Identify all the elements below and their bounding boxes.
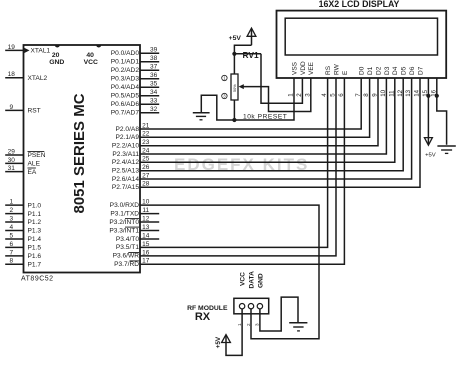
svg-text:7: 7 (355, 93, 362, 97)
svg-text:5: 5 (9, 232, 13, 239)
pin 30 ALE (5, 157, 40, 168)
pin 16 P3.6/WR (113, 249, 150, 259)
svg-text:D0: D0 (359, 66, 366, 75)
svg-text:19: 19 (8, 44, 16, 51)
svg-text:3: 3 (9, 215, 13, 222)
RV1 wiper arrow (239, 84, 244, 89)
pin 12 P3.2/INT0 (109, 215, 149, 225)
pin 20 GND top bump (55, 45, 60, 48)
svg-text:XTAL2: XTAL2 (28, 75, 48, 82)
wire P3.0/RXD to RF module DATA (140, 205, 319, 339)
wire P3.6/WR to LCD RW (140, 78, 336, 256)
svg-text:38: 38 (150, 55, 158, 62)
pin 1 P1.0 (5, 199, 41, 210)
pin 37 P0.2/AD2 (111, 64, 159, 74)
svg-text:+5V: +5V (215, 336, 222, 348)
pin 17 P3.7/RD (114, 258, 150, 268)
wire stub pin 13 (140, 230, 159, 232)
svg-text:30: 30 (8, 157, 16, 164)
pin 33 P0.6/AD6 (111, 98, 159, 108)
pin 11 P3.1/TXD (110, 207, 149, 217)
RV1 pin 1 circle (222, 75, 227, 80)
svg-text:P2.5/A13: P2.5/A13 (112, 168, 139, 175)
svg-text:VDD: VDD (300, 61, 307, 75)
pin 28 P2.7/A15 (112, 181, 150, 191)
pin 21 P2.0/A8 (116, 122, 150, 132)
pin 29 PSEN (5, 148, 45, 159)
wire LCD pin3 VEE to pot wiper (243, 78, 311, 112)
pin 32 P0.7/AD7 (111, 106, 159, 116)
svg-text:RW: RW (333, 63, 340, 75)
svg-text:11: 11 (388, 90, 395, 97)
RV1 pin 3 circle (222, 93, 227, 98)
wire P2.0/A8 to LCD D0 (140, 78, 361, 129)
svg-text:+5V: +5V (229, 35, 242, 42)
svg-text:P3.5/T1: P3.5/T1 (116, 244, 139, 251)
svg-text:P2.7/A15: P2.7/A15 (112, 184, 139, 191)
RF pin circle 1 (239, 304, 244, 309)
svg-text:P0.7/AD7: P0.7/AD7 (111, 110, 140, 117)
svg-text:31: 31 (8, 165, 16, 172)
svg-text:+5V: +5V (425, 152, 436, 158)
svg-text:RS: RS (325, 65, 332, 75)
wire P2.2/A10 to LCD D2 (140, 78, 378, 146)
pin 36 P0.3/AD3 (111, 72, 159, 82)
RF pin circle 2 (248, 304, 253, 309)
RF pin circle 3 (257, 304, 262, 309)
wire stub pin 11 (140, 213, 159, 215)
svg-text:13: 13 (405, 89, 412, 96)
pin 6 P1.5 (5, 241, 41, 252)
svg-text:P0.2/AD2: P0.2/AD2 (111, 67, 140, 74)
svg-text:VCC: VCC (240, 272, 247, 286)
svg-text:10: 10 (380, 89, 387, 96)
wire LCD pin16 backlight cathode to ground (437, 78, 447, 145)
svg-text:8: 8 (363, 93, 370, 97)
junction RV1 top node (232, 52, 236, 56)
svg-text:50%: 50% (233, 84, 237, 92)
pin 9 RST (5, 104, 40, 115)
wire stub pin 12 (140, 221, 159, 223)
pin 24 P2.3/A11 (112, 147, 149, 157)
potentiometer RV1 body (231, 74, 238, 100)
wire P3.7/RD to LCD E (140, 78, 344, 264)
svg-text:GND: GND (257, 273, 264, 288)
svg-text:P3.3/INT1: P3.3/INT1 (109, 227, 139, 234)
wire stub pin 14 (140, 238, 159, 240)
wire P3.5/T1 to LCD RS (140, 78, 328, 247)
svg-text:D6: D6 (409, 66, 416, 75)
svg-text:DATA: DATA (248, 271, 255, 289)
pin 13 P3.3/INT1 (109, 224, 149, 234)
svg-text:GND: GND (49, 59, 64, 66)
svg-text:9: 9 (372, 93, 379, 97)
svg-text:P0.5/AD5: P0.5/AD5 (111, 93, 140, 100)
wire LCD pin1 VSS stub down to ground rail (201, 78, 294, 120)
svg-text:XTAL1: XTAL1 (31, 48, 51, 55)
ground symbol near RF (289, 323, 307, 331)
svg-text:12: 12 (397, 89, 404, 96)
svg-text:P3.2/INT0: P3.2/INT0 (109, 219, 139, 226)
svg-text:9: 9 (9, 104, 13, 111)
svg-text:ALE: ALE (28, 161, 41, 168)
svg-text:VEE: VEE (308, 61, 315, 75)
svg-text:P1.5: P1.5 (28, 245, 42, 252)
svg-text:P2.1/A9: P2.1/A9 (116, 134, 140, 141)
wire RF GND to ground (260, 297, 298, 331)
pin 5 P1.4 (5, 232, 41, 243)
svg-text:P3.4/T0: P3.4/T0 (116, 236, 139, 243)
svg-text:4: 4 (9, 224, 13, 231)
svg-text:P2.4/A12: P2.4/A12 (112, 159, 139, 166)
svg-text:P2.6/A14: P2.6/A14 (112, 176, 139, 183)
pin 35 P0.4/AD4 (111, 81, 159, 91)
svg-text:AT89C52: AT89C52 (21, 275, 54, 282)
svg-text:D1: D1 (367, 66, 374, 75)
svg-text:D3: D3 (384, 66, 391, 75)
pin 15 P3.5/T1 (116, 241, 150, 251)
pin 18 XTAL2 (5, 71, 47, 82)
svg-text:8: 8 (9, 258, 13, 265)
svg-text:RX: RX (195, 311, 211, 323)
wire LCD pin2 VDD to +5V rail (261, 54, 302, 104)
svg-text:36: 36 (150, 72, 158, 79)
svg-text:P1.3: P1.3 (28, 228, 42, 235)
pin 14 P3.4/T0 (116, 232, 150, 242)
svg-text:35: 35 (150, 81, 158, 88)
wire +5V node to VDD drop (234, 53, 261, 55)
svg-text:P0.3/AD3: P0.3/AD3 (111, 76, 140, 83)
ground at LCD pin16 (437, 146, 455, 153)
svg-text:P1.1: P1.1 (28, 211, 42, 218)
svg-text:1: 1 (9, 199, 13, 206)
wire +5V to RV1 top (234, 45, 251, 74)
svg-text:P0.1/AD1: P0.1/AD1 (111, 59, 140, 66)
junction pin16 (435, 94, 439, 98)
svg-text:P2.2/A10: P2.2/A10 (112, 143, 139, 150)
ground symbol near RV1 (193, 113, 210, 120)
svg-text:D2: D2 (375, 66, 382, 75)
wire RF VCC to +5V (226, 309, 242, 356)
wire LCD pin15 backlight anode (427, 78, 429, 144)
svg-text:P1.4: P1.4 (28, 236, 42, 243)
svg-text:33: 33 (150, 98, 158, 105)
pin 23 P2.2/A10 (112, 139, 150, 149)
wire P2.6/A14 to LCD D6 (140, 78, 412, 179)
svg-text:8051 SERIES MC: 8051 SERIES MC (71, 93, 88, 213)
pin 26 P2.5/A13 (112, 164, 150, 174)
svg-text:P2.0/A8: P2.0/A8 (116, 126, 140, 133)
svg-text:P0.4/AD4: P0.4/AD4 (111, 84, 140, 91)
svg-text:1: 1 (237, 323, 242, 326)
power +5V arrow top (247, 28, 256, 45)
svg-text:P3.6/WR: P3.6/WR (113, 253, 140, 260)
svg-text:20: 20 (52, 52, 60, 59)
svg-text:P1.0: P1.0 (28, 202, 42, 209)
pin 34 P0.5/AD5 (111, 89, 159, 99)
pin 40 VCC top bump (96, 45, 101, 48)
wire RV1 bottom to ground rail (233, 100, 235, 120)
junction pin15 (426, 94, 430, 98)
pin 3 P1.2 (5, 215, 41, 226)
pin 7 P1.6 (5, 249, 41, 260)
svg-text:P1.7: P1.7 (28, 262, 42, 269)
svg-text:P0.6/AD6: P0.6/AD6 (111, 101, 140, 108)
svg-text:RV1: RV1 (243, 50, 259, 60)
pin 8 P1.7 (5, 258, 41, 269)
svg-text:37: 37 (150, 64, 158, 71)
svg-text:P2.3/A11: P2.3/A11 (112, 151, 139, 158)
svg-text:6: 6 (9, 241, 13, 248)
RF module RX box (234, 298, 269, 314)
pin 25 P2.4/A12 (112, 156, 150, 166)
pin 38 P0.1/AD1 (111, 55, 159, 65)
svg-text:D7: D7 (417, 66, 424, 75)
svg-text:14: 14 (414, 89, 421, 96)
pin 31 EA (5, 165, 37, 176)
svg-text:VCC: VCC (84, 59, 98, 66)
wire P2.3/A11 to LCD D3 (140, 78, 386, 154)
LCD screen inner box (285, 18, 437, 55)
svg-text:P3.0/RXD: P3.0/RXD (110, 202, 140, 209)
svg-text:29: 29 (8, 148, 16, 155)
svg-text:32: 32 (150, 106, 158, 113)
svg-text:2: 2 (9, 207, 13, 214)
svg-text:4: 4 (321, 93, 328, 97)
op-amp U1 8051 chip body (24, 45, 141, 273)
svg-text:E: E (342, 70, 349, 75)
svg-text:16X2 LCD DISPLAY: 16X2 LCD DISPLAY (319, 0, 400, 9)
power arrow +5V at LCD pin15 (424, 138, 432, 146)
svg-text:18: 18 (8, 71, 16, 78)
svg-text:7: 7 (9, 249, 13, 256)
junction pot bottom / ground rail (232, 118, 236, 122)
wire P2.1/A9 to LCD D1 (140, 78, 370, 137)
svg-text:39: 39 (150, 47, 158, 54)
svg-text:P0.0/AD0: P0.0/AD0 (111, 50, 140, 57)
svg-text:P3.7/RD: P3.7/RD (114, 261, 139, 268)
pin 19 XTAL1 (5, 44, 50, 55)
wire P2.4/A12 to LCD D4 (140, 78, 395, 162)
svg-text:PSEN: PSEN (28, 152, 46, 159)
LCD module U2 16X2 LCD DISPLAY outer box (277, 11, 447, 78)
power +5V arrow at RF (222, 335, 231, 343)
pin 27 P2.6/A14 (112, 172, 150, 182)
pin 39 P0.0/AD0 (111, 47, 159, 57)
pin 10 P3.0/RXD (110, 199, 150, 209)
pin 2 P1.1 (5, 207, 41, 218)
svg-text:34: 34 (150, 89, 158, 96)
svg-text:D4: D4 (392, 66, 399, 75)
pin 22 P2.1/A9 (116, 131, 150, 141)
svg-text:VSS: VSS (291, 61, 298, 75)
svg-text:EA: EA (28, 169, 37, 176)
svg-text:P1.2: P1.2 (28, 219, 42, 226)
svg-text:P3.1/TXD: P3.1/TXD (110, 210, 139, 217)
svg-text:2: 2 (246, 323, 251, 326)
svg-text:10k PRESET: 10k PRESET (243, 114, 287, 121)
svg-text:3: 3 (255, 323, 260, 326)
svg-text:D5: D5 (401, 66, 408, 75)
svg-text:5: 5 (330, 93, 337, 97)
svg-text:P1.6: P1.6 (28, 253, 42, 260)
svg-text:6: 6 (338, 93, 345, 97)
svg-text:40: 40 (86, 52, 94, 59)
wire P2.5/A13 to LCD D5 (140, 78, 403, 171)
svg-text:RST: RST (28, 108, 41, 115)
wire P2.7/A15 to LCD D7 (140, 78, 420, 187)
pin 4 P1.3 (5, 224, 41, 235)
